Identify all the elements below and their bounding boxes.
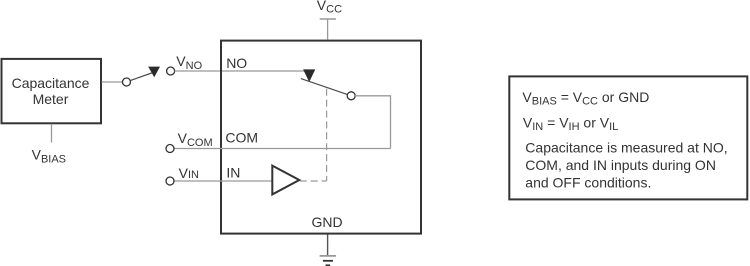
svg-text:Meter: Meter (33, 91, 69, 107)
svg-text:NO: NO (226, 55, 247, 71)
svg-text:Capacitance: Capacitance (12, 75, 90, 91)
node VNO terminal circle (167, 67, 175, 75)
node VCOM terminal circle (166, 145, 174, 153)
wire VCC stem (327, 19, 329, 40)
svg-text:Capacitance is measured at NO,: Capacitance is measured at NO, (525, 140, 727, 156)
wire dashed control vertical (326, 89, 328, 181)
DUT box U1 (221, 41, 421, 234)
node VIN terminal circle (166, 177, 174, 185)
svg-text:IN: IN (226, 165, 240, 181)
power VCC tee bar (320, 18, 336, 20)
capacitance meter box (2, 59, 102, 123)
switch S1 pole contact circle (123, 78, 131, 86)
svg-text:VBIAS: VBIAS (32, 147, 66, 166)
svg-text:and OFF conditions.: and OFF conditions. (525, 175, 651, 191)
wire COM (174, 148, 391, 150)
wire VBIAS stub (51, 124, 53, 143)
wire COM feedback loop (355, 96, 391, 149)
svg-text:VNO: VNO (176, 53, 202, 72)
svg-text:COM: COM (225, 130, 258, 146)
switch S1 arrow (148, 67, 160, 78)
wire meter output (102, 81, 123, 83)
svg-text:COM, and IN inputs during ON: COM, and IN inputs during ON (525, 157, 716, 173)
wire dashed control horizontal (300, 180, 327, 182)
svg-text:GND: GND (311, 214, 342, 230)
ground symbol (320, 255, 337, 257)
svg-text:VCOM: VCOM (178, 130, 213, 149)
switch S2 pole contact circle (347, 92, 355, 100)
svg-text:VCC: VCC (317, 0, 342, 16)
switch S1 pole lever (130, 73, 153, 81)
note box (509, 76, 747, 199)
buffer U2 (272, 166, 299, 195)
wire IN (174, 180, 272, 182)
svg-text:VIN: VIN (179, 165, 199, 181)
wire NO (175, 70, 310, 72)
switch S2 arrow (303, 69, 315, 82)
wire GND stem (327, 235, 329, 256)
switch S2 pole lever (301, 79, 348, 95)
